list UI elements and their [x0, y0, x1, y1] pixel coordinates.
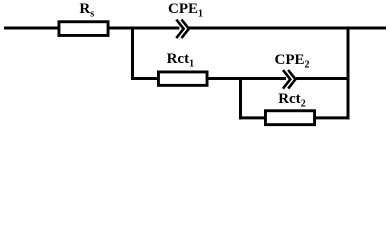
- svg-text:CPE1: CPE1: [168, 1, 203, 20]
- svg-text:CPE2: CPE2: [275, 52, 310, 71]
